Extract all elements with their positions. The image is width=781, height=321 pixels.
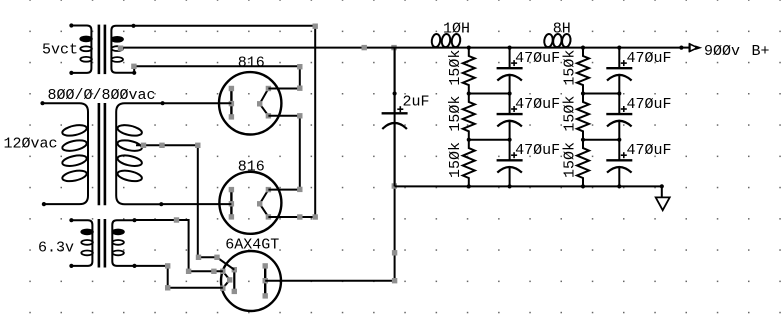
transformer T1 secondary winding 5vct center-tapped <box>111 24 136 75</box>
label 470uF (C2) <box>515 50 560 67</box>
svg-text:47ØuF: 47ØuF <box>627 96 672 113</box>
wire: T2 center tap to V3 cathode <box>136 143 234 270</box>
svg-text:8H: 8H <box>553 21 571 38</box>
inductor L2 8H <box>543 33 571 47</box>
svg-text:15Øk: 15Øk <box>447 50 464 86</box>
wire: junction row segments column 2 <box>581 91 622 141</box>
svg-text:816: 816 <box>238 159 265 176</box>
capacitor C1 2uF <box>382 48 408 187</box>
transformer T3 core <box>99 219 105 268</box>
label 6.3v <box>38 240 74 257</box>
resistor R5 150k <box>577 94 589 140</box>
resistor R3 150k <box>463 140 475 187</box>
label 150k (R6) <box>561 142 578 178</box>
resistor R6 150k <box>577 140 589 187</box>
label 816 (V2) <box>238 159 265 176</box>
label 150k (R1) <box>447 50 464 86</box>
tube V3 filament <box>220 269 232 291</box>
label 120vac <box>4 135 58 152</box>
svg-text:15Øk: 15Øk <box>447 142 464 178</box>
wire: 5vct bottom end to V1 filament pin <box>131 64 302 91</box>
svg-text:6.3v: 6.3v <box>38 240 74 257</box>
resistor R2 150k <box>463 94 475 140</box>
capacitor C5 470uF <box>606 48 632 94</box>
label 10H <box>443 21 470 38</box>
resistor R1 150k <box>463 48 475 94</box>
wire: 5vct top end to V2 filament pin <box>134 24 318 220</box>
svg-text:15Øk: 15Øk <box>447 96 464 132</box>
svg-text:1ØH: 1ØH <box>443 21 470 38</box>
rectifier tube V1 816 envelope <box>219 72 281 134</box>
svg-text:47ØuF: 47ØuF <box>515 96 560 113</box>
transformer T1 core <box>99 25 105 75</box>
tube V3 cathode <box>232 267 237 294</box>
wire: ground bus <box>395 184 664 188</box>
svg-text:47ØuF: 47ØuF <box>515 142 560 159</box>
svg-text:15Øk: 15Øk <box>561 96 578 132</box>
tube V2 plate <box>229 187 234 220</box>
tube V1 plate <box>229 86 234 120</box>
rectifier tube V2 816 envelope <box>219 172 281 234</box>
wire: T3 top end to V3 filament <box>135 217 223 274</box>
wire: V1 filament to V2 filament <box>268 113 302 192</box>
label 5vct <box>42 41 78 58</box>
svg-text:8ØØ/Ø/8ØØvac: 8ØØ/Ø/8ØØvac <box>48 87 156 104</box>
wire: T3 bottom end to V3 filament <box>135 263 223 290</box>
svg-text:15Øk: 15Øk <box>561 50 578 86</box>
capacitor C7 470uF <box>606 140 632 187</box>
transformer T1 primary winding (5vct) <box>69 23 92 75</box>
label 8H <box>553 21 571 38</box>
svg-text:5vct: 5vct <box>42 41 78 58</box>
label 2uF <box>403 94 430 111</box>
label 470uF (C5) <box>627 50 672 67</box>
svg-text:9ØØv: 9ØØv <box>704 43 740 60</box>
svg-text:B+: B+ <box>752 43 770 60</box>
svg-text:6AX4GT: 6AX4GT <box>225 236 279 253</box>
svg-text:15Øk: 15Øk <box>561 142 578 178</box>
label 900v B+ <box>704 43 770 60</box>
capacitor C2 470uF <box>497 48 523 94</box>
wire: junction row segments column 1 <box>467 91 512 141</box>
svg-text:12Øvac: 12Øvac <box>4 135 58 152</box>
capacitor C4 470uF <box>497 140 523 187</box>
tube V1 filament <box>257 86 271 119</box>
transformer T3 primary winding (6.3v) <box>69 218 93 268</box>
inductor L1 10H <box>431 33 461 47</box>
transformer T2 core <box>99 103 105 205</box>
capacitor C3 470uF <box>497 94 523 140</box>
label 470uF (C3) <box>515 96 560 113</box>
wire: T2 top 800v tap to V1 plate <box>163 102 232 104</box>
wire: T2 bottom 800v tap to V2 plate <box>161 203 231 205</box>
svg-text:2uF: 2uF <box>403 94 430 111</box>
label 150k (R2) <box>447 96 464 132</box>
capacitor C6 470uF <box>606 94 632 140</box>
tube V3 plate <box>263 263 268 298</box>
wire: V3 plate to filter ground bus <box>265 45 397 284</box>
label 470uF (C7) <box>627 142 672 159</box>
label 470uF (C4) <box>515 142 560 159</box>
svg-text:47ØuF: 47ØuF <box>627 50 672 67</box>
node: B+ rail junctions <box>467 46 684 50</box>
label 150k (R5) <box>561 96 578 132</box>
label 470uF (C6) <box>627 96 672 113</box>
svg-text:816: 816 <box>238 54 265 71</box>
label 6AX4GT <box>225 236 279 253</box>
label 150k (R4) <box>561 50 578 86</box>
transformer T2 secondary winding 800/0/800vac <box>116 101 165 206</box>
svg-text:47ØuF: 47ØuF <box>627 142 672 159</box>
tube V2 filament <box>257 187 271 220</box>
output port arrow B+ <box>681 43 702 52</box>
wire: B+ rail from 5vct center tap to output <box>118 45 682 51</box>
damper tube V3 6AX4GT envelope <box>221 251 281 311</box>
resistor R4 150k <box>577 48 589 94</box>
label 150k (R3) <box>447 142 464 178</box>
transformer T3 secondary winding <box>112 218 136 268</box>
transformer T2 primary winding (120vac) <box>40 101 88 206</box>
label 816 (V1) <box>238 54 265 71</box>
label 800/0/800vac <box>48 87 156 104</box>
svg-text:47ØuF: 47ØuF <box>515 50 560 67</box>
ground symbol <box>656 186 670 210</box>
